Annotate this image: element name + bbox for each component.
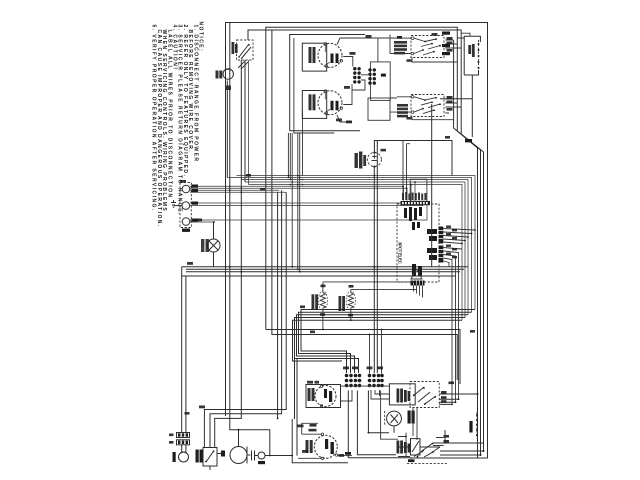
wire RR leads right <box>445 99 461 113</box>
broil inner box <box>302 423 318 434</box>
labels RR right <box>447 96 453 111</box>
wire control right edge <box>431 104 433 267</box>
broil element cluster <box>397 441 411 454</box>
label fan <box>408 411 415 424</box>
wire connector bottom stubs <box>414 286 423 298</box>
label switch LR <box>309 94 316 110</box>
cab ground <box>221 451 225 457</box>
infinite switch RF (dashed) <box>411 36 444 58</box>
wire nest drop a <box>204 192 286 447</box>
oven light <box>207 239 220 252</box>
wire pin feeds <box>403 141 410 194</box>
bake relay <box>315 385 336 407</box>
wire door switch stubs <box>210 454 221 471</box>
oven fuse 1 <box>177 433 190 438</box>
wire strip cross <box>341 386 399 439</box>
door switch lower <box>411 439 421 455</box>
infinite switch RR (dashed) <box>411 95 444 117</box>
wire oven light leads <box>213 222 215 267</box>
strip lower box <box>368 98 390 120</box>
label clock wire <box>381 149 387 152</box>
wire RF leads left <box>390 35 411 54</box>
relay K1 strip <box>439 227 444 244</box>
label plug <box>258 461 265 464</box>
junction dots warmer <box>322 329 324 331</box>
labels lower latch <box>444 435 450 443</box>
terminal strip TS-b <box>368 374 384 388</box>
terminal strip T1 <box>353 67 361 84</box>
label lock motor <box>216 71 223 79</box>
burner switch LF <box>318 43 343 68</box>
elec clock <box>367 152 381 168</box>
notice text block <box>151 22 204 228</box>
wire latch stubs down <box>413 408 417 441</box>
wire broil top <box>302 433 322 435</box>
plug <box>258 452 292 459</box>
labels terminal wires <box>182 185 198 232</box>
wire neutral feeds <box>190 201 423 206</box>
connector strip top <box>401 201 431 205</box>
oven box right <box>389 384 415 405</box>
lamp <box>179 445 189 463</box>
surface unit frame <box>290 35 365 131</box>
label RD <box>345 452 351 455</box>
capacitor <box>252 451 259 461</box>
bake relay box <box>306 385 341 408</box>
wire band D <box>266 30 460 384</box>
wire RF leads right <box>445 40 461 54</box>
wire lock motor lead <box>226 81 228 178</box>
lock aux contacts <box>238 61 248 69</box>
label 1AB <box>381 74 386 77</box>
wire fan link <box>368 391 394 433</box>
terminal L1 <box>182 185 190 193</box>
wire right drop 1 <box>454 40 488 458</box>
lower cluster extras <box>398 433 444 457</box>
terminal strip T2 <box>368 68 376 85</box>
wire clock bottom 2 <box>376 141 378 374</box>
wire nest drop c <box>277 192 279 418</box>
electronic control board (dashed) <box>397 204 439 282</box>
wire inner frame B <box>248 30 461 134</box>
wire inner frame A <box>266 27 458 329</box>
label switch LF <box>309 47 316 63</box>
wire terminal feeds <box>190 182 415 201</box>
triac cluster <box>404 207 422 230</box>
relay K1 cluster <box>427 229 437 241</box>
junction dot clock <box>373 175 375 177</box>
svg-text:3PCT ELEC: 3PCT ELEC <box>398 242 403 265</box>
wire clock bottom <box>373 167 375 373</box>
wire TS-b bottom stubs <box>371 390 389 399</box>
labels RR leads <box>397 104 408 117</box>
wire left bus 2 <box>215 60 242 448</box>
hidden bake element cluster <box>397 389 411 403</box>
burner switch box LF <box>302 43 326 71</box>
wire broil bottom <box>298 457 321 459</box>
door switch box <box>203 448 217 467</box>
wire sensor drop <box>440 75 472 137</box>
wire element drops <box>348 391 412 458</box>
fan motor <box>230 447 247 464</box>
wire right drop 2 <box>440 131 481 455</box>
broil relay frame <box>292 356 348 463</box>
label clock <box>355 152 367 169</box>
wire ISW1 bottom <box>412 58 457 63</box>
labels RF leads <box>394 36 407 54</box>
label sensor bottom <box>469 421 472 433</box>
terminal N <box>182 202 190 210</box>
wire lock switch lead <box>244 60 246 182</box>
wire bus band A <box>227 176 475 321</box>
wire control fan left <box>288 111 302 272</box>
wire RR leads left <box>390 97 411 121</box>
relay K2 cluster <box>427 248 437 260</box>
wire TS-a bottom stubs <box>341 390 352 401</box>
wire left bus 1 <box>230 23 270 456</box>
labels latch <box>441 382 454 403</box>
power terminal block (dashed) <box>180 183 191 228</box>
wire burner leads <box>337 38 397 122</box>
wire bus band B <box>182 267 468 276</box>
wire ISW2 bottom <box>412 117 454 120</box>
door latch switches (dashed) <box>410 382 439 408</box>
label broil wire <box>309 424 317 431</box>
wire fuse drop 2 <box>185 276 187 433</box>
oven sensor top <box>464 36 480 75</box>
label broil relay <box>306 440 313 453</box>
label warmer 1 <box>312 285 326 316</box>
buzzer cluster <box>412 264 422 276</box>
door lock switch (dashed) <box>237 40 254 60</box>
label warmer 2 <box>339 285 354 316</box>
broil relay <box>314 433 337 459</box>
svg-text:5. VERIFY PROPER OPERATION AFT: 5. VERIFY PROPER OPERATION AFTER SERVICI… <box>151 25 157 212</box>
connector loop box <box>410 179 427 201</box>
pins RF <box>411 37 414 40</box>
wire K2 fan <box>443 248 462 405</box>
label lamp <box>173 452 176 462</box>
label 1AM <box>408 459 415 462</box>
surface unit frame inner <box>294 38 335 133</box>
ground symbol <box>171 200 182 207</box>
oven sensor bottom <box>476 412 478 439</box>
wire clock top <box>374 141 452 176</box>
label BK <box>465 139 472 142</box>
wire lock switch lead 2 <box>248 60 250 185</box>
wire nest drop b <box>210 190 282 447</box>
label oven light <box>201 239 209 252</box>
burner switch LR <box>318 90 343 115</box>
wire broil right <box>338 455 352 457</box>
wire fuse drop 1 <box>181 267 183 433</box>
connector strip bottom <box>411 281 425 286</box>
terminal strip TS-a <box>345 374 362 388</box>
wire sensor leads <box>457 33 470 38</box>
fan dashes <box>384 411 386 425</box>
labels sensor leads <box>442 32 450 56</box>
terminal L2 <box>182 218 190 226</box>
latch lower switches <box>414 443 440 457</box>
wire band C nest <box>293 310 476 374</box>
label oven sensor <box>468 44 474 57</box>
wire K1 fan <box>443 229 475 244</box>
wire motor leads <box>239 430 251 455</box>
warmer resistor 2 <box>346 290 417 321</box>
pins RR <box>411 96 414 99</box>
wire latch outputs <box>439 394 477 404</box>
latch switch contacts <box>413 387 436 405</box>
warmer resistor 1 <box>318 282 327 330</box>
strip T2 box <box>370 62 390 101</box>
connector pin labels <box>402 192 426 200</box>
wire code labels <box>169 33 475 457</box>
convection fan <box>387 411 402 426</box>
label BK wire <box>226 86 231 91</box>
cabinet outline <box>226 23 488 459</box>
dashed bottom <box>407 462 447 464</box>
wire lower latch <box>398 430 484 447</box>
label bake relay <box>308 388 315 401</box>
wire L2 feed <box>190 201 427 222</box>
wire warmer rail <box>323 281 414 283</box>
junction dots <box>213 175 484 457</box>
wire right drop 3 <box>440 134 484 451</box>
label door switch <box>196 450 203 463</box>
burner switch box LR <box>302 91 326 119</box>
relay K2 strip <box>439 246 444 263</box>
label lock switch <box>232 42 238 54</box>
oven fuse 2 <box>177 440 190 445</box>
door lock motor <box>223 69 233 79</box>
wire TS-b drops <box>370 330 382 374</box>
labels RF right <box>447 37 453 52</box>
